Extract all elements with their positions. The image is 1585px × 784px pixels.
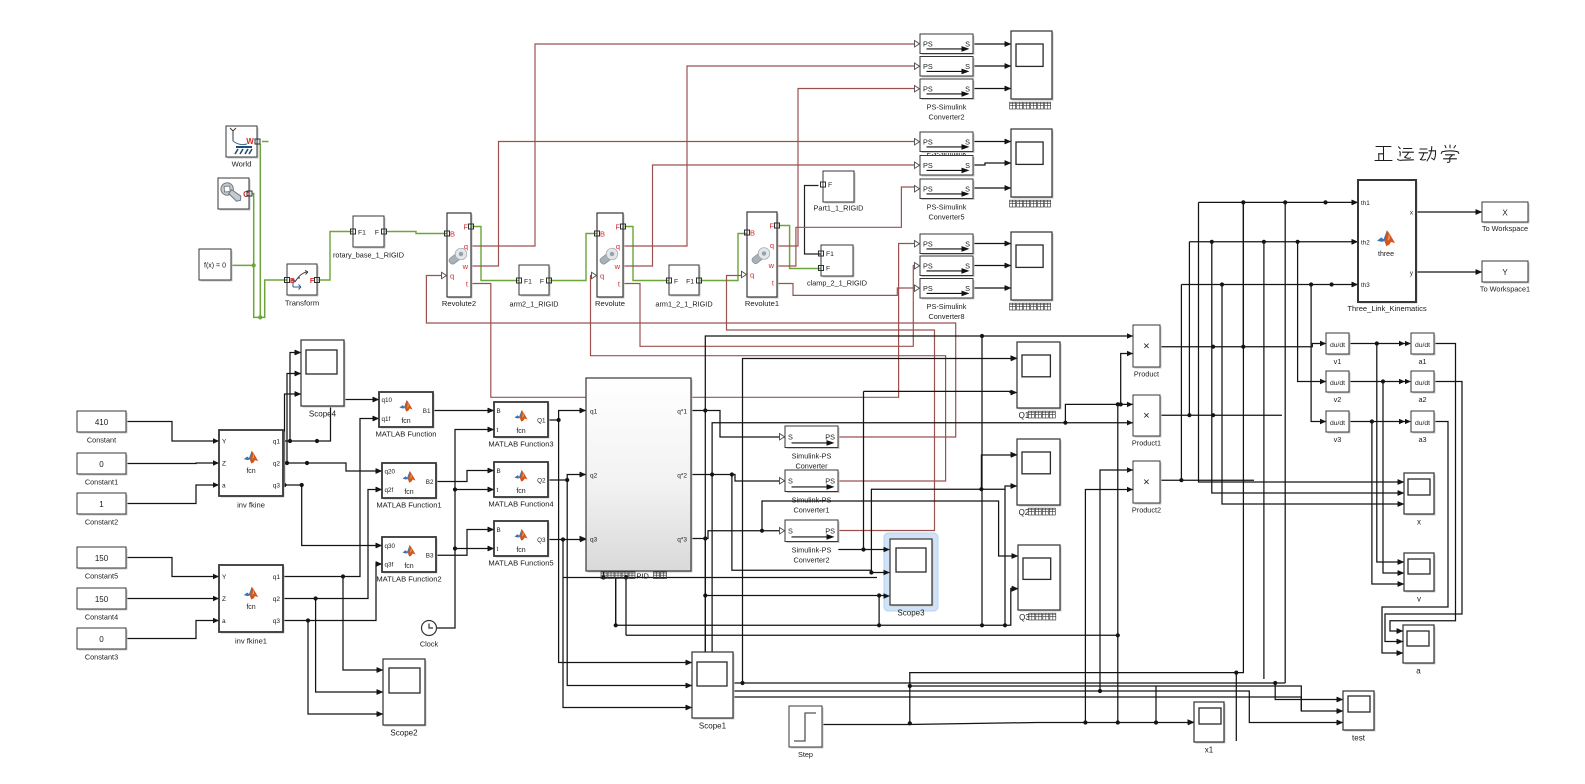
wire Revolute2 w to PS-Simulink Converter5-1 maroon (471, 142, 914, 267)
svg-text:PS: PS (923, 62, 933, 71)
svg-text:w: w (768, 261, 775, 270)
title forward kinematics (Chinese) (1375, 145, 1459, 162)
svg-text:q2: q2 (273, 596, 281, 603)
svg-text:w: w (462, 262, 469, 271)
svg-text:q1: q1 (273, 439, 281, 446)
block PS-Simulink Converter2 unit 3 (922, 81, 975, 101)
svg-text:F: F (674, 279, 678, 286)
svg-text:Simulink-PS: Simulink-PS (792, 496, 832, 505)
svg-text:Q1: Q1 (537, 417, 546, 424)
block To Workspace X (1484, 204, 1530, 224)
svg-text:0: 0 (99, 460, 104, 469)
wire Constant3 to inv fkine1 a (126, 621, 219, 639)
svg-text:Transform: Transform (285, 299, 319, 308)
svg-text:X: X (1502, 209, 1508, 218)
svg-text:MATLAB Function4: MATLAB Function4 (488, 500, 553, 509)
svg-text:Scope4: Scope4 (309, 410, 337, 419)
wire Q3 scope in1 feed (762, 501, 1018, 556)
svg-text:F1: F1 (826, 251, 834, 258)
svg-text:B: B (497, 408, 501, 415)
svg-text:fcn: fcn (404, 489, 413, 496)
svg-text:F1: F1 (686, 279, 694, 286)
svg-text:Scope2: Scope2 (390, 729, 418, 738)
svg-text:150: 150 (95, 554, 109, 563)
svg-text:F: F (463, 223, 468, 232)
svg-text:Constant3: Constant3 (85, 653, 118, 662)
wire bottom bus B1 with Q3 scope in2 riser (615, 578, 617, 626)
svg-text:To Workspace1: To Workspace1 (1480, 285, 1530, 294)
svg-text:PS: PS (923, 284, 933, 293)
svg-text:Constant1: Constant1 (85, 478, 118, 487)
block PS-Simulink Converter8 unit 3 (922, 280, 975, 300)
block Mechanism Configuration (220, 180, 251, 211)
block PS-Simulink Converter5 unit 3 (922, 181, 975, 201)
svg-text:Q2: Q2 (537, 477, 546, 484)
scope x (1406, 475, 1436, 516)
svg-text:t: t (497, 487, 499, 494)
wire inv fkine q3 to MATLAB Function2 q30 and Scope4 (283, 485, 382, 546)
block Solver Configuration f(x)=0 (201, 251, 233, 282)
wire Product2 in1 feed (1100, 470, 1133, 691)
svg-text:PS: PS (825, 432, 835, 441)
wire solver-config green bus (262, 141, 269, 143)
block Part1_1_RIGID (825, 173, 856, 204)
block du/dt a2 (1413, 373, 1436, 394)
svg-text:q1: q1 (590, 409, 598, 416)
wire Constant2 to inv fkine a (126, 485, 219, 504)
svg-text:clamp_2_1_RIGID: clamp_2_1_RIGID (807, 279, 867, 288)
svg-text:q3: q3 (273, 618, 281, 625)
svg-text:PID: PID (637, 571, 649, 580)
block MATLAB Function3 (496, 404, 550, 439)
block MATLAB Function1 (384, 465, 438, 500)
block Constant3 (79, 630, 128, 651)
svg-text:×: × (1143, 477, 1149, 489)
block MATLAB Function4 (496, 464, 550, 499)
wire th2 line into Three_Link_Kinematics (1189, 241, 1358, 243)
block Revolute1 (749, 214, 779, 299)
svg-text:Product: Product (1134, 370, 1159, 379)
wire Revolute q to PS-Simulink Converter2-2 maroon (623, 66, 914, 246)
svg-text:B3: B3 (426, 553, 434, 560)
scope Q2 tracking (1019, 441, 1062, 507)
svg-text:S: S (965, 39, 970, 48)
svg-text:1: 1 (99, 500, 104, 509)
svg-text:x: x (1417, 518, 1421, 527)
wire arm2_1_RIGID F to Revolute B green (549, 234, 597, 281)
wire Step to x1 scope and product feeds (822, 723, 1194, 725)
svg-text:du/dt: du/dt (1415, 380, 1430, 387)
wire Revolute2 F to arm2_1_RIGID F1 green (471, 227, 519, 281)
wire inv fkine1 q2 to MATLAB Function1 q2f and Scope2 (283, 490, 382, 599)
svg-text:S: S (965, 261, 970, 270)
wire Revolute2 t to PS-Simulink Converter8-1 maroon (471, 244, 914, 398)
wire Q1 scope in1 feed (743, 359, 1018, 684)
scope Q3 tracking (1020, 547, 1062, 612)
svg-text:Product1: Product1 (1132, 439, 1161, 448)
svg-text:S: S (788, 476, 793, 485)
wire Simulink-PS Converter to Revolute2 q actuation maroon (426, 276, 955, 438)
svg-text:inv fkine: inv fkine (237, 501, 265, 510)
svg-text:×: × (1143, 341, 1149, 353)
wire MATLAB Function B1 to MATLAB Function3 B (433, 410, 494, 412)
svg-text:S: S (965, 62, 970, 71)
wire across PID label (603, 572, 605, 578)
wire Revolute t to PS-Simulink Converter8-2 maroon (623, 266, 914, 347)
wire Simulink-PS Converter2 to Revolute1 q actuation maroon (727, 276, 935, 531)
scope x1 (1196, 704, 1226, 744)
svg-text:th1: th1 (1361, 200, 1370, 207)
block inv fkine1 (221, 567, 285, 634)
svg-text:Y: Y (222, 439, 227, 446)
svg-text:fcn: fcn (516, 488, 525, 495)
block clamp_2_1_RIGID (823, 247, 855, 278)
svg-text:Simulink-PS: Simulink-PS (792, 546, 832, 555)
svg-text:Converter2: Converter2 (928, 113, 964, 122)
svg-text:Z: Z (222, 461, 226, 468)
block Product1 (1135, 397, 1162, 438)
block inv fkine (221, 432, 285, 498)
block Product2 (1135, 463, 1162, 505)
svg-text:S: S (965, 284, 970, 293)
wire Constant1 to inv fkine Z (126, 462, 219, 465)
svg-text:MATLAB Function2: MATLAB Function2 (376, 575, 441, 584)
svg-text:Three_Link_Kinematics: Three_Link_Kinematics (1347, 304, 1427, 313)
svg-text:PS: PS (923, 161, 933, 170)
svg-text:Revolute: Revolute (595, 299, 625, 308)
wire Q2 scope in1 feed (981, 455, 1017, 489)
svg-text:du/dt: du/dt (1415, 420, 1430, 427)
svg-text:th2: th2 (1361, 239, 1370, 246)
wire PID q*1 branches (691, 411, 785, 438)
svg-text:a2: a2 (1418, 395, 1426, 404)
wire arm1_2_1_RIGID F1 to Revolute1 B green (699, 234, 747, 281)
svg-text:three: three (1378, 251, 1394, 258)
svg-text:q: q (450, 272, 454, 281)
wire Revolute1 F to clamp_2_1_RIGID F green (777, 226, 821, 269)
svg-text:du/dt: du/dt (1415, 342, 1430, 349)
svg-text:F1: F1 (524, 279, 532, 286)
svg-text:fcn: fcn (246, 468, 255, 475)
block Product (1135, 327, 1162, 369)
block PS-Simulink Converter2 unit 1 (922, 36, 975, 56)
svg-text:test: test (1352, 734, 1366, 743)
svg-text:a1: a1 (1418, 357, 1426, 366)
scope three-joint-velocity (1013, 131, 1054, 199)
wire Revolute1 w to PS-Simulink Converter5-3 maroon (777, 187, 914, 266)
wire MATLAB Function5 Q3 to PID q3 and Scope1 (548, 539, 586, 541)
wire Constant4 to inv fkine1 Z (126, 598, 219, 600)
svg-text:B: B (750, 229, 755, 238)
svg-text:q*3: q*3 (677, 537, 687, 544)
svg-text:Converter2: Converter2 (793, 556, 829, 565)
svg-text:PS: PS (923, 261, 933, 270)
svg-text:v: v (1417, 595, 1421, 604)
svg-text:v2: v2 (1334, 395, 1342, 404)
svg-text:Revolute2: Revolute2 (442, 299, 476, 308)
svg-text:f(x) = 0: f(x) = 0 (204, 263, 226, 270)
wire Revolute1 t to PS-Simulink Converter8-3 maroon (777, 284, 914, 296)
svg-text:t: t (497, 427, 499, 434)
wire MATLAB Function1 B2 to MATLAB Function4 B (436, 471, 494, 482)
svg-text:th3: th3 (1361, 282, 1370, 289)
svg-text:S: S (788, 526, 793, 535)
svg-text:arm2_1_RIGID: arm2_1_RIGID (509, 300, 558, 309)
svg-text:World: World (232, 160, 252, 169)
block Constant (79, 413, 128, 434)
svg-text:Converter: Converter (795, 462, 828, 471)
svg-text:Y: Y (1502, 268, 1508, 277)
block PS-Simulink Converter8 unit 2 (922, 258, 975, 278)
svg-text:du/dt: du/dt (1330, 420, 1345, 427)
svg-text:q1f: q1f (382, 416, 391, 423)
svg-text:W: W (246, 137, 254, 146)
svg-text:PS: PS (923, 39, 933, 48)
scope Scope3 selected (887, 536, 936, 609)
block World (228, 128, 259, 159)
svg-text:arm1_2_1_RIGID: arm1_2_1_RIGID (655, 300, 712, 309)
block Constant5 (79, 549, 128, 570)
svg-text:S: S (965, 137, 970, 146)
svg-text:Converter5: Converter5 (928, 213, 964, 222)
svg-text:du/dt: du/dt (1330, 380, 1345, 387)
svg-text:Scope1: Scope1 (699, 722, 727, 731)
wire Three_Link x/y to workspace (1416, 211, 1482, 213)
svg-text:F: F (769, 222, 774, 231)
block Three_Link_Kinematics (1360, 182, 1418, 304)
block PS-Simulink Converter5 unit 2 (922, 157, 975, 177)
svg-text:q2: q2 (590, 473, 598, 480)
svg-text:MATLAB Function1: MATLAB Function1 (376, 501, 441, 510)
wire Revolute2 q to PS-Simulink Converter2-1 maroon (471, 44, 914, 246)
svg-text:S: S (965, 184, 970, 193)
svg-text:PS: PS (825, 526, 835, 535)
wire MATLAB Function2 B3 to MATLAB Function5 B (436, 530, 494, 556)
svg-text:v1: v1 (1334, 357, 1342, 366)
svg-text:B: B (600, 230, 605, 239)
wire riser from bus to Q2 jog (1004, 489, 1006, 625)
svg-text:t: t (497, 546, 499, 553)
block Constant1 (79, 455, 128, 476)
wire a du/dt outputs wrap to a scope (1390, 344, 1456, 632)
wire rotary_base F to Revolute2 B green (384, 232, 447, 234)
svg-text:S: S (788, 432, 793, 441)
svg-text:Scope3: Scope3 (897, 609, 925, 618)
svg-text:×: × (1143, 410, 1149, 422)
block To Workspace1 Y (1484, 263, 1530, 284)
block Revolute (599, 215, 625, 299)
block PS-Simulink Converter2 unit 2 (922, 58, 975, 78)
svg-text:PS-Simulink: PS-Simulink (927, 302, 967, 311)
svg-text:PS: PS (825, 476, 835, 485)
svg-text:Constant5: Constant5 (85, 572, 118, 581)
scope Scope4 (303, 342, 346, 408)
svg-text:q3: q3 (590, 537, 598, 544)
block Simulink-PS Converter1 (787, 472, 840, 494)
svg-text:B: B (497, 527, 501, 534)
wire MATLAB Function4 Q2 to PID q2 and Scope1 (548, 475, 586, 481)
svg-text:q*1: q*1 (677, 409, 687, 416)
svg-text:F: F (540, 279, 544, 286)
svg-text:q20: q20 (385, 468, 396, 475)
wire PS-Simulink Converter2 outputs to position scope (973, 43, 1011, 45)
wire Revolute F to arm1_2_1_RIGID F green (623, 227, 669, 281)
svg-text:Constant2: Constant2 (85, 518, 118, 527)
svg-text:q: q (600, 272, 604, 281)
svg-text:PS: PS (923, 239, 933, 248)
block du/dt v1 (1328, 335, 1351, 356)
svg-text:Part1_1_RIGID: Part1_1_RIGID (814, 204, 864, 213)
svg-text:Converter8: Converter8 (928, 312, 964, 321)
wire Product output to du/dt v1 with risers (1160, 344, 1326, 347)
svg-text:a: a (1416, 667, 1421, 676)
svg-text:Simulink-PS: Simulink-PS (792, 452, 832, 461)
svg-text:410: 410 (95, 418, 109, 427)
wire PS-Simulink Converter8 outputs to torque scope (973, 243, 1011, 245)
block MATLAB Function (381, 394, 435, 429)
svg-text:inv fkine1: inv fkine1 (235, 637, 267, 646)
block du/dt v2 (1328, 373, 1351, 394)
wire Scope3 in1 and Q1 scope in2 feed (864, 391, 1018, 392)
svg-text:MATLAB Function3: MATLAB Function3 (488, 440, 553, 449)
wire PS-Simulink Converter5 outputs to velocity scope (973, 141, 1011, 143)
svg-text:MATLAB Function: MATLAB Function (375, 430, 436, 439)
scope three-joint-torque (1013, 234, 1054, 302)
block Simulink-PS Converter2 (787, 522, 840, 544)
svg-text:a3: a3 (1418, 435, 1426, 444)
svg-text:rotary_base_1_RIGID: rotary_base_1_RIGID (333, 251, 404, 260)
wire th3 line into Three_Link_Kinematics (1181, 284, 1358, 286)
wire Simulink-PS Converter1 to Revolute q actuation maroon (591, 276, 946, 482)
scope Q1 tracking (1019, 344, 1062, 410)
block Constant2 (79, 495, 128, 516)
block PS-Simulink Converter5 unit 1 (922, 134, 975, 154)
block MATLAB Function5 (496, 523, 550, 558)
svg-text:F: F (826, 266, 830, 273)
svg-text:Step: Step (798, 750, 813, 759)
wire Constant to inv fkine Y (126, 422, 219, 442)
scope Scope1 (694, 654, 735, 720)
block PS-Simulink Converter8 unit 1 (922, 236, 975, 256)
svg-text:Constant: Constant (87, 436, 116, 445)
scope v (1406, 555, 1436, 593)
svg-text:S: S (965, 161, 970, 170)
svg-text:a: a (222, 483, 226, 490)
svg-text:q*2: q*2 (677, 473, 687, 480)
svg-text:F: F (828, 182, 832, 189)
svg-text:x1: x1 (1205, 746, 1214, 755)
svg-text:q: q (770, 241, 774, 250)
svg-text:F: F (615, 223, 620, 232)
block du/dt a3 (1413, 413, 1436, 434)
label PID subsystem (Chinese) (601, 572, 607, 579)
wire inv fkine1 q3 to MATLAB Function2 q3f and Scope2 (283, 564, 382, 621)
svg-text:fcn: fcn (404, 563, 413, 570)
svg-text:q30: q30 (385, 543, 396, 550)
block arm1_2_1_RIGID (671, 267, 701, 297)
svg-text:F1: F1 (358, 230, 366, 237)
wire PID q*2 branches (691, 475, 785, 482)
wire bottom bus B2 (626, 634, 1118, 636)
svg-text:a: a (222, 618, 226, 625)
block Clock (422, 621, 437, 636)
wire Transform-F to rotary_base F1 green (317, 232, 353, 281)
wire Revolute1 q to PS-Simulink Converter2-3 maroon (777, 89, 914, 247)
wire v du/dt outputs to a du/dt and v scope (1349, 343, 1405, 345)
svg-text:PS-Simulink: PS-Simulink (927, 203, 967, 212)
svg-text:Q3: Q3 (537, 537, 546, 544)
svg-text:fcn: fcn (516, 428, 525, 435)
block du/dt a1 (1413, 335, 1436, 356)
svg-text:q3: q3 (273, 483, 281, 490)
svg-text:Product2: Product2 (1132, 506, 1161, 515)
svg-text:B2: B2 (426, 479, 434, 486)
svg-text:q2: q2 (273, 461, 281, 468)
svg-text:B: B (497, 468, 501, 475)
wire Clock to MATLAB Function3/4/5 t inputs (437, 430, 495, 629)
block Step (791, 708, 824, 749)
wire MATLAB Function3 Q1 to PID q1 and Scope1 (548, 411, 586, 421)
svg-text:0: 0 (99, 635, 104, 644)
svg-text:q3f: q3f (385, 561, 394, 568)
block Constant4 (79, 590, 128, 611)
svg-text:B1: B1 (423, 408, 431, 415)
wire Constant5 to inv fkine1 Y (126, 558, 219, 577)
svg-text:150: 150 (95, 595, 109, 604)
scope a (1405, 627, 1436, 665)
svg-text:PS-Simulink: PS-Simulink (927, 103, 967, 112)
wire Scope3 in3 feed (705, 595, 890, 597)
svg-text:PS: PS (923, 184, 933, 193)
svg-text:To Workspace: To Workspace (1482, 224, 1528, 233)
svg-text:B: B (450, 230, 455, 239)
block Simulink-PS Converter (787, 428, 840, 450)
svg-text:S: S (965, 84, 970, 93)
svg-text:PS: PS (923, 84, 933, 93)
wire th taps down to du/dt velocity blocks (1298, 242, 1326, 382)
svg-text:Converter1: Converter1 (793, 506, 829, 515)
block MATLAB Function2 (384, 539, 438, 574)
wire th3 tap down to x scope in3 (1222, 285, 1404, 505)
wire riser from th2 down to bus (1263, 242, 1265, 679)
svg-text:MATLAB Function5: MATLAB Function5 (488, 559, 553, 568)
svg-text:w: w (614, 262, 621, 271)
svg-text:fcn: fcn (246, 604, 255, 611)
svg-text:B: B (290, 278, 295, 285)
svg-text:Clock: Clock (420, 640, 439, 649)
svg-text:Y: Y (222, 574, 227, 581)
svg-text:fcn: fcn (401, 418, 410, 425)
svg-text:q10: q10 (382, 397, 393, 404)
svg-text:v3: v3 (1334, 435, 1342, 444)
block Revolute2 (449, 215, 473, 299)
svg-text:S: S (965, 239, 970, 248)
wire Part1_1_RIGID F to clamp_2_1_RIGID F1 (805, 186, 822, 255)
wire inv fkine1 q1 to MATLAB Function q1f and Scope2 (283, 419, 379, 577)
block Transform (289, 266, 319, 297)
scope test (1345, 693, 1376, 732)
svg-text:PS: PS (923, 137, 933, 146)
block rotary_base_1_RIGID (355, 218, 386, 249)
svg-text:F: F (375, 230, 379, 237)
svg-text:Constant4: Constant4 (85, 613, 118, 622)
svg-text:Revolute1: Revolute1 (745, 299, 779, 308)
svg-text:q2f: q2f (385, 487, 394, 494)
svg-text:du/dt: du/dt (1330, 342, 1345, 349)
scope Scope2 (385, 661, 427, 727)
svg-text:fcn: fcn (516, 547, 525, 554)
wire inv fkine q1 to MATLAB Function q10 and Scope4 (283, 400, 379, 442)
